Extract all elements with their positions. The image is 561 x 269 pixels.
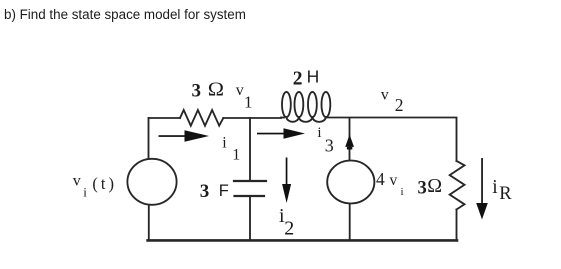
dependent source 4vi circle bbox=[327, 161, 374, 204]
current arrow i1 (head) bbox=[185, 130, 210, 142]
resistor R 3-ohm vertical zigzag (right branch) bbox=[450, 161, 465, 210]
svg-text:(t): (t) bbox=[92, 174, 117, 193]
svg-text:i: i bbox=[222, 135, 227, 152]
wire capacitor branch lower bbox=[249, 197, 251, 240]
svg-text:1: 1 bbox=[232, 147, 240, 164]
svg-text:v: v bbox=[73, 173, 81, 190]
svg-text:Ω: Ω bbox=[427, 176, 442, 197]
svg-text:4: 4 bbox=[376, 169, 385, 189]
svg-text:2: 2 bbox=[395, 95, 404, 115]
current arrow i2 (shaft) bbox=[286, 158, 288, 186]
capacitor C 3F plates bbox=[234, 180, 266, 182]
svg-text:3: 3 bbox=[192, 81, 202, 102]
svg-text:F: F bbox=[219, 182, 229, 200]
inductor L 2H loops bbox=[281, 117, 284, 119]
wire left vertical upper (corner to source top) bbox=[148, 118, 150, 159]
svg-text:i: i bbox=[83, 185, 87, 200]
svg-text:2: 2 bbox=[293, 69, 303, 90]
svg-text:3: 3 bbox=[418, 179, 427, 199]
resistor R 3-ohm horizontal zigzag bbox=[180, 110, 223, 126]
svg-text:i: i bbox=[492, 177, 498, 198]
svg-text:Ω: Ω bbox=[208, 79, 224, 101]
svg-text:3: 3 bbox=[200, 181, 210, 202]
svg-text:1: 1 bbox=[244, 93, 253, 112]
svg-text:3: 3 bbox=[325, 136, 334, 156]
current arrow i2 (head) bbox=[282, 184, 291, 203]
svg-text:R: R bbox=[499, 184, 512, 204]
current arrow i1 (shaft) bbox=[159, 135, 191, 137]
wire dependent-source branch upper (top rail to circle) bbox=[349, 118, 351, 161]
wire capacitor branch upper (node v1 down to plate) bbox=[249, 118, 251, 180]
voltage source vi(t) circle bbox=[127, 159, 176, 205]
wire right vertical upper (corner to resistor) bbox=[456, 118, 458, 161]
current arrow up into node v2 (head on source branch) bbox=[345, 135, 354, 147]
svg-text:i: i bbox=[401, 186, 404, 198]
current arrow iR (shaft) bbox=[481, 158, 483, 206]
current arrow iR (head) bbox=[476, 203, 488, 220]
wire inductor to top-right corner bbox=[326, 117, 457, 119]
current arrow i3 (head) bbox=[284, 128, 306, 139]
svg-text:b) Find the state space model: b) Find the state space model for system bbox=[4, 7, 246, 22]
svg-text:i: i bbox=[317, 125, 321, 141]
svg-text:H: H bbox=[307, 67, 320, 87]
wire left vertical lower (source bottom to bottom rail) bbox=[148, 205, 150, 240]
svg-text:2: 2 bbox=[284, 217, 294, 239]
wire dependent-source branch lower (circle to bottom rail) bbox=[349, 204, 351, 241]
wire right vertical lower bbox=[456, 210, 458, 241]
svg-text:v: v bbox=[236, 82, 244, 99]
wire between resistor and node v1 / inductor bbox=[223, 117, 281, 119]
svg-text:v: v bbox=[381, 86, 389, 103]
wire top-left horizontal (corner to resistor) bbox=[149, 117, 181, 119]
wire bottom rail bbox=[148, 239, 457, 242]
current arrow i3 (shaft) bbox=[257, 133, 289, 135]
svg-text:v: v bbox=[390, 172, 398, 189]
